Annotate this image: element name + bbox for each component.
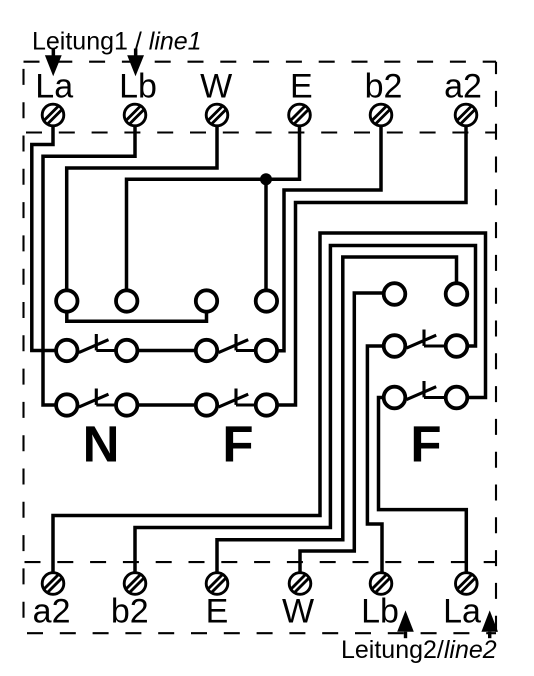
svg-text:a2: a2	[444, 68, 482, 106]
svg-text:E: E	[290, 68, 313, 106]
svg-text:F: F	[222, 416, 253, 473]
svg-text:N: N	[83, 416, 120, 473]
svg-text:E: E	[206, 593, 229, 631]
svg-text:Lb: Lb	[119, 68, 157, 106]
svg-text:La: La	[443, 593, 481, 631]
svg-text:Lb: Lb	[361, 593, 399, 631]
svg-text:b2: b2	[111, 593, 149, 631]
svg-text:b2: b2	[365, 68, 403, 106]
svg-text:Leitung2/line2: Leitung2/line2	[341, 636, 497, 664]
svg-text:Leitung1 / line1: Leitung1 / line1	[32, 28, 202, 56]
svg-text:W: W	[200, 68, 232, 106]
svg-text:a2: a2	[33, 593, 71, 631]
svg-text:F: F	[410, 416, 441, 473]
svg-text:La: La	[35, 68, 73, 106]
svg-text:W: W	[282, 593, 314, 631]
